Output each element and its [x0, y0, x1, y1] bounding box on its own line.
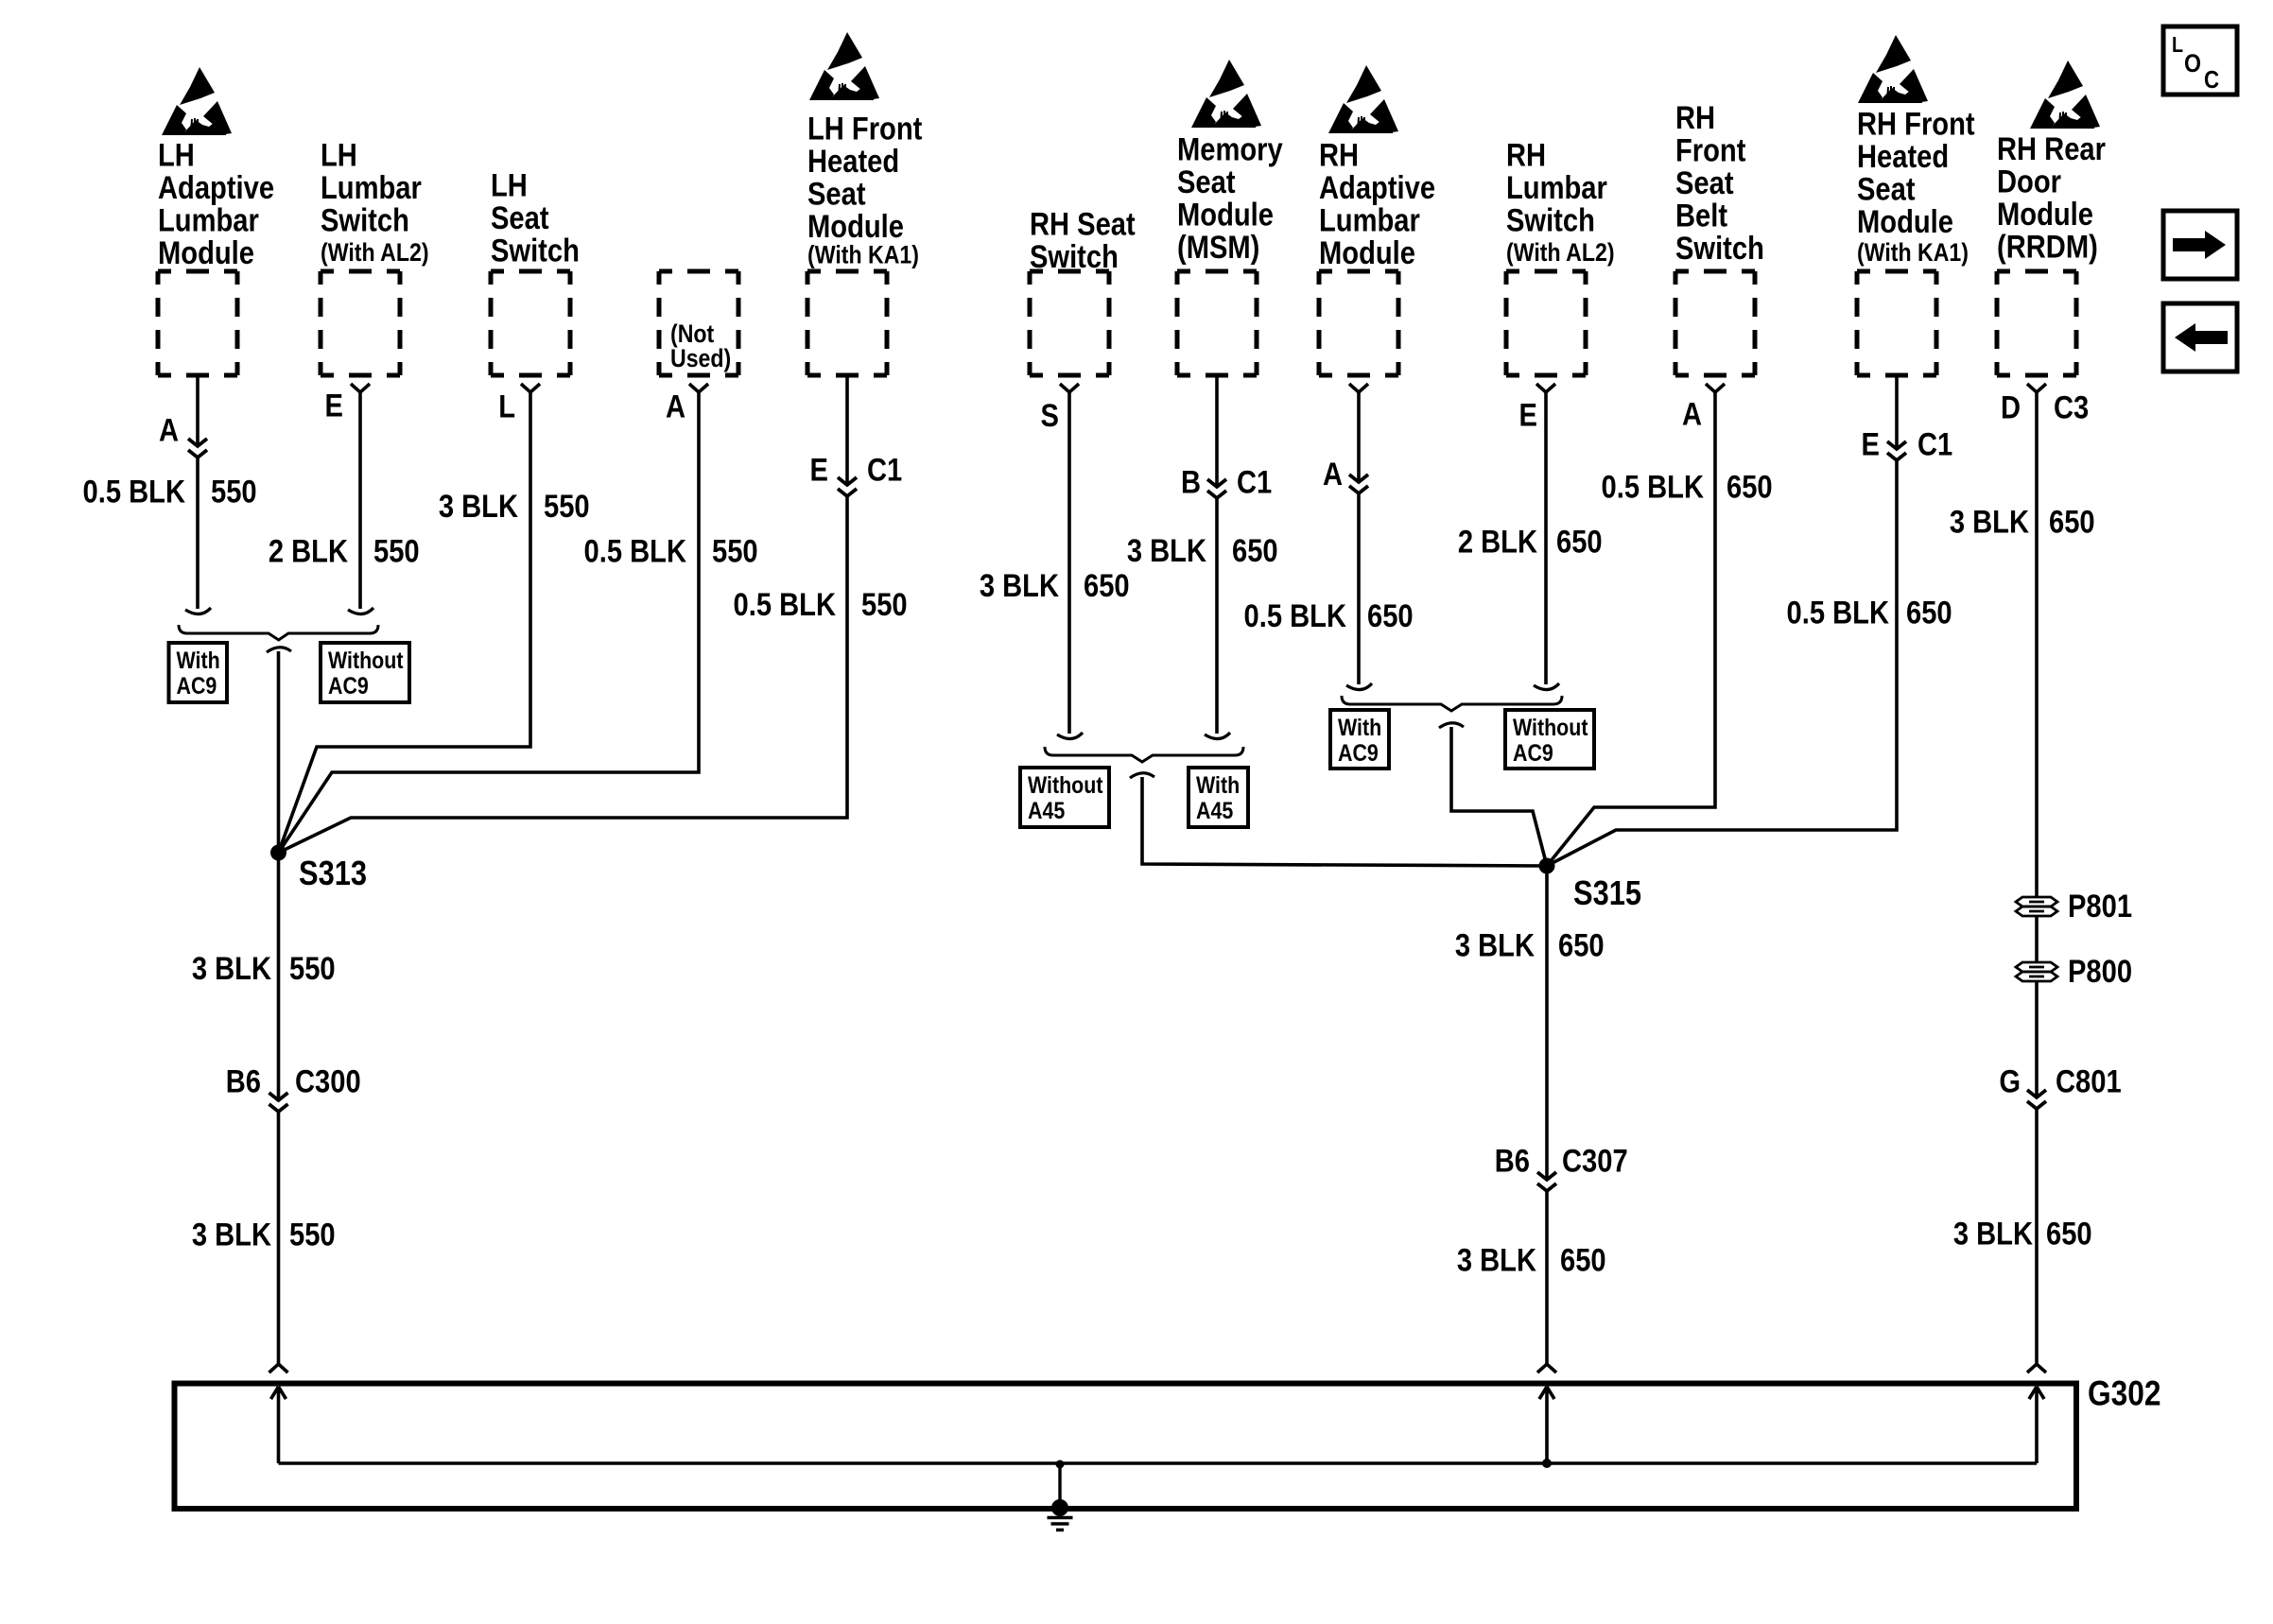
wire from C300 down to ground box G302 — [277, 1112, 281, 1364]
svg-text:RH: RH — [1506, 136, 1546, 173]
wire from C307 down to ground box G302 — [1545, 1191, 1549, 1364]
svg-text:AC9: AC9 — [1513, 739, 1553, 766]
svg-text:E: E — [325, 387, 343, 423]
wire end hook w2 — [348, 608, 373, 614]
svg-text:Module: Module — [1319, 234, 1415, 271]
wire label 2 BLK 550 (w2) — [269, 532, 420, 569]
inline connector C1 chevrons on w7 — [1207, 479, 1226, 498]
wire between P801 and P800 — [2035, 917, 2039, 961]
svg-text:(RRDM): (RRDM) — [1997, 228, 2098, 265]
pin labels E / C1 (w11) — [1862, 425, 1953, 462]
svg-text:AC9: AC9 — [328, 672, 369, 699]
svg-text:C1: C1 — [1237, 463, 1272, 500]
pass-through grommet P800 — [2016, 962, 2057, 981]
svg-text:Used): Used) — [670, 344, 731, 372]
svg-text:Seat: Seat — [1177, 164, 1236, 200]
wire label 0.5 BLK 550 (w4) — [584, 532, 758, 569]
svg-text:C: C — [2204, 66, 2219, 94]
module M2 LH Lumbar Switch — [321, 136, 429, 375]
option box With A45 — [1189, 768, 1248, 827]
svg-text:3 BLK: 3 BLK — [439, 488, 518, 525]
earth ground symbol — [1048, 1518, 1073, 1530]
svg-text:RH Front: RH Front — [1857, 105, 1975, 142]
terminal fork w8 — [1349, 384, 1368, 392]
svg-text:0.5 BLK: 0.5 BLK — [734, 586, 837, 623]
option box With AC9 (left) — [169, 643, 228, 702]
combined wire from brace1 down to S313 — [277, 651, 281, 853]
pin labels B / C1 (w7) — [1181, 463, 1272, 500]
svg-text:550: 550 — [712, 532, 758, 569]
svg-text:B6: B6 — [1495, 1142, 1530, 1179]
wire end hook w9 — [1534, 683, 1559, 690]
svg-text:C1: C1 — [1917, 425, 1952, 462]
svg-text:Module: Module — [158, 234, 254, 271]
wire w10 from RH Front Seat Belt Switch pin A to S315 — [1547, 392, 1715, 866]
module M4 (Not Used) connector — [659, 271, 738, 375]
terminal fork w6 — [1060, 384, 1079, 392]
svg-text:Without: Without — [1513, 714, 1588, 740]
svg-text:3 BLK: 3 BLK — [1457, 1241, 1536, 1278]
svg-text:D: D — [2001, 389, 2021, 425]
svg-text:Seat: Seat — [807, 175, 866, 212]
wire from P800 down to C801 — [2035, 982, 2039, 1097]
svg-text:S313: S313 — [299, 855, 367, 893]
module M12 RH Rear Door Module — [1997, 60, 2106, 375]
svg-text:0.5 BLK: 0.5 BLK — [1244, 597, 1347, 634]
svg-text:LH: LH — [158, 136, 195, 173]
module M10 RH Front Seat Belt Switch — [1675, 99, 1764, 375]
svg-text:550: 550 — [861, 586, 908, 623]
svg-text:C801: C801 — [2056, 1063, 2122, 1099]
svg-text:3 BLK: 3 BLK — [1953, 1215, 2033, 1252]
junction dot on bus (middle) — [1542, 1459, 1552, 1468]
svg-text:3 BLK: 3 BLK — [192, 950, 271, 987]
svg-text:650: 650 — [2049, 503, 2095, 540]
inline connector C1 chevrons on w5 — [838, 477, 857, 496]
wire label 0.5 BLK 650 (w11) — [1787, 594, 1952, 631]
wire from C801 down to ground box G302 — [2035, 1109, 2039, 1364]
svg-text:(With AL2): (With AL2) — [321, 238, 429, 267]
svg-text:650: 650 — [1556, 523, 1603, 560]
svg-text:3 BLK: 3 BLK — [1127, 532, 1206, 569]
svg-text:Door: Door — [1997, 163, 2061, 199]
combined wire from brace2 to S315 — [1142, 777, 1547, 866]
terminal fork w2 — [351, 384, 370, 392]
svg-text:550: 550 — [289, 950, 336, 987]
svg-text:Module: Module — [1857, 203, 1953, 240]
svg-text:650: 650 — [1558, 926, 1605, 963]
svg-text:Switch: Switch — [1675, 230, 1764, 267]
right arrow navigation box — [2163, 211, 2237, 279]
svg-text:(With KA1): (With KA1) — [1857, 238, 1969, 267]
wire from S315 down to C307 — [1545, 866, 1549, 1180]
svg-text:A: A — [1682, 395, 1702, 432]
svg-text:3 BLK: 3 BLK — [1950, 503, 2029, 540]
svg-text:C1: C1 — [867, 451, 902, 488]
svg-text:L: L — [2172, 33, 2183, 58]
wire from S313 down to C300 — [277, 853, 281, 1100]
wire end hook w7 — [1205, 733, 1230, 739]
module M3 LH Seat Switch — [491, 166, 580, 375]
svg-text:Without: Without — [1028, 771, 1103, 798]
svg-text:With: With — [1196, 771, 1240, 798]
wire label 3 BLK 650 (w12) — [1950, 503, 2095, 540]
svg-text:650: 650 — [1560, 1241, 1606, 1278]
svg-text:550: 550 — [544, 488, 590, 525]
svg-text:Adaptive: Adaptive — [1319, 169, 1435, 206]
wire w9 from RH Lumbar Switch pin E — [1544, 392, 1548, 684]
pass-through grommet P801 — [2016, 897, 2057, 916]
ground stub wire — [1058, 1464, 1061, 1505]
terminal fork w3 — [521, 384, 540, 392]
svg-text:P800: P800 — [2068, 953, 2132, 990]
terminal fork at G302 entry (middle) — [1537, 1364, 1556, 1373]
svg-text:0.5 BLK: 0.5 BLK — [1787, 594, 1890, 631]
svg-text:Switch: Switch — [491, 232, 580, 268]
svg-text:A: A — [666, 388, 685, 424]
svg-text:Lumbar: Lumbar — [1319, 201, 1420, 238]
option box Without AC9 (middle) — [1505, 710, 1594, 769]
svg-text:650: 650 — [1367, 597, 1414, 634]
svg-text:B6: B6 — [226, 1063, 261, 1099]
wire end hook w6 — [1057, 733, 1083, 739]
pin labels G / C801 — [1999, 1063, 2121, 1099]
svg-text:2 BLK: 2 BLK — [269, 532, 348, 569]
wire label 0.5 BLK 550 (w1) — [83, 473, 257, 510]
wire label 3 BLK 650 (C307 to G302) — [1457, 1241, 1606, 1278]
svg-text:2 BLK: 2 BLK — [1458, 523, 1537, 560]
terminal fork w12 — [2027, 384, 2046, 392]
inline connector C307 chevrons — [1537, 1172, 1556, 1191]
module M11 RH Front Heated Seat Module — [1857, 35, 1975, 375]
svg-text:Switch: Switch — [1506, 201, 1595, 238]
ground bus internal wire — [279, 1461, 2038, 1464]
splice S315 — [1539, 858, 1555, 874]
svg-text:Front: Front — [1675, 131, 1746, 168]
inline connector chevrons on w1 — [188, 439, 207, 458]
wire label 0.5 BLK 550 (w5) — [734, 586, 908, 623]
ground box G302 — [175, 1384, 2077, 1510]
wire label 3 BLK 550 (w3) — [439, 488, 590, 525]
svg-text:550: 550 — [373, 532, 420, 569]
svg-text:Lumbar: Lumbar — [158, 201, 259, 238]
brace joining w8 and w9 — [1342, 696, 1562, 711]
wire end hook w8 — [1346, 683, 1372, 690]
svg-text:RH: RH — [1319, 136, 1359, 173]
splice S313 — [270, 845, 286, 861]
combined wire from brace3 to S315 — [1451, 727, 1547, 866]
svg-text:(With KA1): (With KA1) — [807, 241, 919, 269]
wire w6 from RH Seat Switch pin S — [1067, 392, 1071, 734]
ground bus arrow left entry — [271, 1387, 286, 1463]
svg-text:LH: LH — [491, 166, 528, 203]
pin labels D / C3 (w12) — [2001, 389, 2089, 425]
svg-text:With: With — [1338, 714, 1381, 740]
wire label 3 BLK 550 (S313 to C300) — [192, 950, 336, 987]
module M8 RH Adaptive Lumbar Module — [1319, 65, 1435, 375]
wire w7 from Memory Seat Module pin B (C1) — [1215, 375, 1219, 734]
svg-text:0.5 BLK: 0.5 BLK — [1602, 468, 1705, 505]
inline connector C300 chevrons — [269, 1093, 288, 1112]
svg-text:A45: A45 — [1028, 797, 1065, 823]
module M9 RH Lumbar Switch — [1506, 136, 1615, 375]
terminal fork at G302 entry (right) — [2027, 1364, 2046, 1373]
svg-text:Without: Without — [328, 647, 404, 673]
svg-text:550: 550 — [211, 473, 257, 510]
svg-text:(MSM): (MSM) — [1177, 229, 1259, 266]
continuation hook below brace 3 — [1439, 723, 1464, 728]
ground terminal dot — [1051, 1499, 1068, 1516]
svg-text:RH Seat: RH Seat — [1030, 205, 1136, 242]
svg-text:Heated: Heated — [1857, 138, 1949, 175]
continuation hook below brace 2 — [1130, 773, 1154, 778]
wire w11 from RH Front Heated Seat Module pin E (C1) to S315 — [1547, 375, 1897, 866]
svg-text:Memory: Memory — [1177, 130, 1283, 167]
svg-text:RH: RH — [1675, 99, 1715, 136]
svg-text:A45: A45 — [1196, 797, 1233, 823]
svg-text:E: E — [810, 451, 828, 488]
svg-text:650: 650 — [2046, 1215, 2092, 1252]
svg-text:550: 550 — [289, 1216, 336, 1253]
svg-text:L: L — [498, 388, 515, 424]
svg-text:Seat: Seat — [491, 199, 549, 236]
wire label 3 BLK 650 (S315 to C307) — [1455, 926, 1605, 963]
svg-text:Seat: Seat — [1857, 170, 1916, 207]
svg-text:E: E — [1519, 396, 1537, 433]
wire w1 from LH Adaptive Lumbar Module pin A — [196, 375, 200, 609]
svg-text:650: 650 — [1232, 532, 1278, 569]
terminal fork at G302 entry (left) — [269, 1364, 288, 1373]
pin labels B6 / C307 — [1495, 1142, 1628, 1179]
inline connector C801 chevrons — [2027, 1090, 2046, 1109]
svg-text:G302: G302 — [2088, 1374, 2161, 1413]
svg-text:Belt: Belt — [1675, 197, 1727, 233]
option box Without A45 — [1020, 768, 1109, 827]
inline connector chevrons on w8 — [1349, 475, 1368, 493]
brace joining w1 and w2 — [179, 625, 378, 640]
svg-text:Heated: Heated — [807, 143, 899, 180]
left arrow navigation box — [2163, 303, 2237, 371]
wire w12 from RH Rear Door Module pin D (C3) — [2035, 392, 2039, 896]
svg-text:0.5 BLK: 0.5 BLK — [83, 473, 186, 510]
svg-text:C307: C307 — [1562, 1142, 1628, 1179]
wire label 0.5 BLK 650 (w10) — [1602, 468, 1773, 505]
brace joining w6 and w7 — [1045, 747, 1243, 762]
svg-text:Adaptive: Adaptive — [158, 169, 274, 206]
wire w4 from Not Used connector to S313 — [279, 392, 700, 853]
svg-text:Lumbar: Lumbar — [1506, 169, 1607, 206]
svg-text:LH Front: LH Front — [807, 110, 923, 147]
terminal fork w10 — [1706, 384, 1725, 392]
svg-text:Lumbar: Lumbar — [321, 169, 422, 206]
svg-text:E: E — [1862, 425, 1880, 462]
svg-text:(With AL2): (With AL2) — [1506, 238, 1615, 267]
svg-text:650: 650 — [1084, 567, 1130, 604]
pin labels E / C1 (w5) — [810, 451, 903, 488]
module M7 Memory Seat Module — [1177, 60, 1283, 375]
svg-text:LH: LH — [321, 136, 357, 173]
ground stub junction dot — [1056, 1460, 1065, 1469]
svg-text:AC9: AC9 — [1338, 739, 1379, 766]
svg-text:AC9: AC9 — [177, 672, 217, 699]
svg-text:Seat: Seat — [1675, 164, 1734, 201]
terminal fork w4 — [689, 384, 708, 392]
svg-text:A: A — [1323, 456, 1343, 492]
wire w8 from RH Adaptive Lumbar Module pin A — [1357, 392, 1361, 684]
module M1 LH Adaptive Lumbar Module — [158, 67, 274, 375]
svg-text:O: O — [2184, 49, 2201, 78]
svg-text:P801: P801 — [2068, 888, 2132, 924]
svg-text:RH Rear: RH Rear — [1997, 130, 2106, 167]
svg-text:0.5 BLK: 0.5 BLK — [584, 532, 687, 569]
svg-text:Module: Module — [1997, 196, 2093, 233]
svg-text:With: With — [177, 647, 220, 673]
svg-text:C300: C300 — [295, 1063, 361, 1099]
svg-text:C3: C3 — [2054, 389, 2089, 425]
svg-text:G: G — [1999, 1063, 2021, 1099]
wire end hook w1 — [185, 608, 211, 614]
terminal fork w9 — [1536, 384, 1555, 392]
svg-text:A: A — [159, 411, 179, 448]
svg-text:Module: Module — [1177, 196, 1274, 233]
svg-text:Module: Module — [807, 208, 904, 245]
wire label 3 BLK 550 (C300 to G302) — [192, 1216, 336, 1253]
svg-text:B: B — [1181, 463, 1201, 500]
module M6 RH Seat Switch — [1030, 205, 1136, 375]
wire label 3 BLK 650 (w7) — [1127, 532, 1278, 569]
wire label 0.5 BLK 650 (w8) — [1244, 597, 1414, 634]
wire label 2 BLK 650 (w9) — [1458, 523, 1603, 560]
inline connector C1 chevrons on w11 — [1887, 441, 1906, 460]
svg-text:3 BLK: 3 BLK — [1455, 926, 1535, 963]
wire w2 from LH Lumbar Switch pin E — [358, 392, 362, 609]
continuation hook below brace 1 — [267, 648, 291, 652]
svg-text:S: S — [1041, 397, 1059, 434]
svg-text:Switch: Switch — [321, 201, 409, 238]
ground bus arrow right entry — [2029, 1387, 2044, 1463]
svg-text:3 BLK: 3 BLK — [192, 1216, 271, 1253]
svg-text:3 BLK: 3 BLK — [980, 567, 1059, 604]
wire label 3 BLK 650 (C801 to G302) — [1953, 1215, 2092, 1252]
LOC legend box — [2163, 26, 2237, 95]
option box Without AC9 (left) — [321, 643, 409, 702]
module M5 LH Front Heated Seat Module — [807, 32, 923, 375]
option box With AC9 (middle) — [1330, 710, 1389, 769]
svg-text:650: 650 — [1726, 468, 1773, 505]
pin labels B6 / C300 — [226, 1063, 361, 1099]
ground bus arrow middle entry — [1539, 1387, 1554, 1463]
svg-text:S315: S315 — [1573, 875, 1641, 913]
svg-text:650: 650 — [1906, 594, 1952, 631]
wire w3 from LH Seat Switch pin L to S313 — [279, 392, 531, 853]
wire label 3 BLK 650 (w6) — [980, 567, 1130, 604]
wire w5 from LH Front Heated Seat Module pin E (C1) to S313 — [279, 375, 848, 853]
